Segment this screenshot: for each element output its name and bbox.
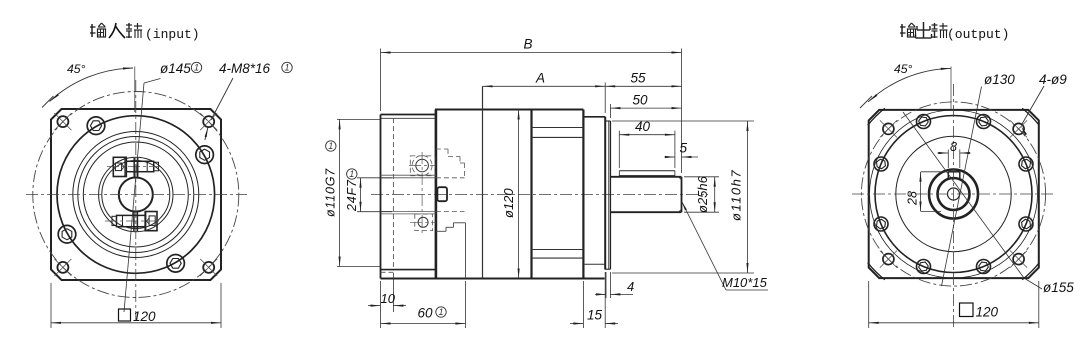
output view: 4 corner holes diam 9	[880, 120, 1027, 267]
svg-text:A: A	[535, 71, 545, 86]
svg-text:15: 15	[587, 308, 603, 323]
svg-text:120: 120	[976, 305, 999, 320]
svg-text:ø120: ø120	[501, 188, 516, 218]
input view: diam 145 label and leader through center	[124, 61, 202, 312]
input view: square-120 dimension	[51, 283, 221, 328]
svg-text:8: 8	[950, 140, 957, 154]
output view: diam 155 label and leader	[903, 112, 1074, 295]
input view: hub clamp slot lines	[134, 158, 138, 231]
output view: 45 degree dimension arc	[860, 62, 951, 110]
middle view: output shaft with keyway	[610, 171, 681, 212]
middle view: main gear housing body	[381, 86, 605, 278]
output view: dimension 8 (keyway width)	[938, 140, 971, 168]
middle view: dimension 55	[605, 71, 681, 88]
svg-text:4-ø9: 4-ø9	[1039, 72, 1067, 87]
output view: diam 155 corner arcs	[868, 108, 1040, 280]
input view: 4 corner holes M8 with diagonal centerlines	[54, 113, 217, 276]
middle view: hidden clamp screws and key	[409, 152, 447, 234]
middle view: output flange plate and pilot boss	[583, 117, 610, 269]
output view: dimension 28	[906, 172, 948, 212]
svg-text:10: 10	[381, 291, 396, 306]
middle view: dimension 5	[665, 141, 699, 159]
svg-text:55: 55	[631, 71, 647, 86]
middle view: dimension 10	[368, 273, 406, 328]
middle view: dimension 50	[610, 93, 681, 119]
middle view: input adapter flange	[381, 115, 437, 279]
svg-text:ø130: ø130	[984, 72, 1015, 87]
output view: diam 130 label and leader	[942, 72, 1016, 286]
output view: shaft keyway slot	[948, 172, 960, 180]
svg-text:ø110h7: ø110h7	[729, 169, 744, 221]
middle view: front housing with retainer bands	[532, 110, 584, 279]
middle view: dimension 24F7	[345, 169, 392, 212]
svg-text:1: 1	[194, 63, 199, 73]
input view: hub clamp screws (top and bottom)	[105, 157, 162, 230]
svg-text:5: 5	[680, 141, 688, 156]
output view: square-120 dimension	[869, 281, 1039, 328]
middle view: dimension 15	[570, 272, 618, 328]
input view: 4-M8*16 label and leader	[205, 61, 293, 140]
output view: square flange outline	[869, 110, 1039, 278]
middle view: horizontal centerline	[371, 194, 708, 196]
svg-text:ø155: ø155	[1043, 280, 1074, 295]
svg-text:ø110G7: ø110G7	[324, 168, 338, 217]
middle view: dimension 60	[381, 281, 466, 328]
svg-text:24F7: 24F7	[345, 179, 359, 212]
svg-text:28: 28	[906, 191, 920, 206]
svg-text:ø25h6: ø25h6	[695, 175, 710, 213]
svg-text:B: B	[524, 37, 533, 52]
svg-text:(output): (output)	[947, 27, 1009, 42]
middle view: dimension 4	[595, 272, 634, 298]
svg-text:50: 50	[633, 93, 649, 108]
middle view: hidden coupling bore lines	[381, 175, 465, 214]
svg-text:4: 4	[627, 279, 634, 294]
middle view: M10*15 label with leader	[682, 201, 769, 290]
svg-text:ø145: ø145	[160, 61, 191, 76]
svg-text:4-M8*16: 4-M8*16	[219, 61, 271, 76]
middle view: dimension A	[483, 71, 606, 114]
svg-text:1: 1	[349, 169, 354, 179]
svg-text:45°: 45°	[67, 62, 86, 76]
title: output end label	[900, 22, 1009, 42]
middle view: dimension diam 110h7	[612, 121, 754, 273]
svg-text:120: 120	[133, 309, 156, 324]
middle view: dimension 40	[619, 119, 675, 168]
svg-text:(input): (input)	[145, 27, 200, 42]
output view: bolt circle dashed (diam 130)	[861, 102, 1045, 286]
svg-text:1: 1	[284, 63, 289, 73]
svg-text:60: 60	[418, 306, 434, 321]
middle view: dimension diam 110G7	[324, 119, 381, 266]
svg-text:M10*15: M10*15	[722, 275, 768, 290]
svg-text:1: 1	[328, 141, 333, 151]
input view: 4 socket head screws on housing circle	[58, 117, 213, 272]
middle view: hidden stepped internal profile	[436, 149, 466, 279]
input view: bolt circle dashed (diam 145)	[33, 92, 239, 298]
output view: 8 socket head screws	[874, 115, 1033, 274]
output view: 4-diam9 label and leader	[1021, 72, 1067, 135]
input view: square flange outline	[51, 109, 221, 280]
output view: centerlines	[852, 84, 1055, 330]
output view: concentric circles	[870, 110, 1038, 278]
svg-text:1: 1	[438, 307, 443, 317]
middle view: dimension B	[381, 37, 682, 174]
svg-text:45°: 45°	[894, 62, 913, 76]
middle view: dimension diam 25h6	[684, 175, 719, 213]
input view: centerlines	[26, 80, 247, 321]
middle view: dimension diam 120	[501, 110, 520, 279]
input view: 45 degree dimension arc with arrow	[42, 62, 135, 112]
title: input end label	[90, 23, 200, 42]
input view: concentric circles	[57, 116, 215, 274]
